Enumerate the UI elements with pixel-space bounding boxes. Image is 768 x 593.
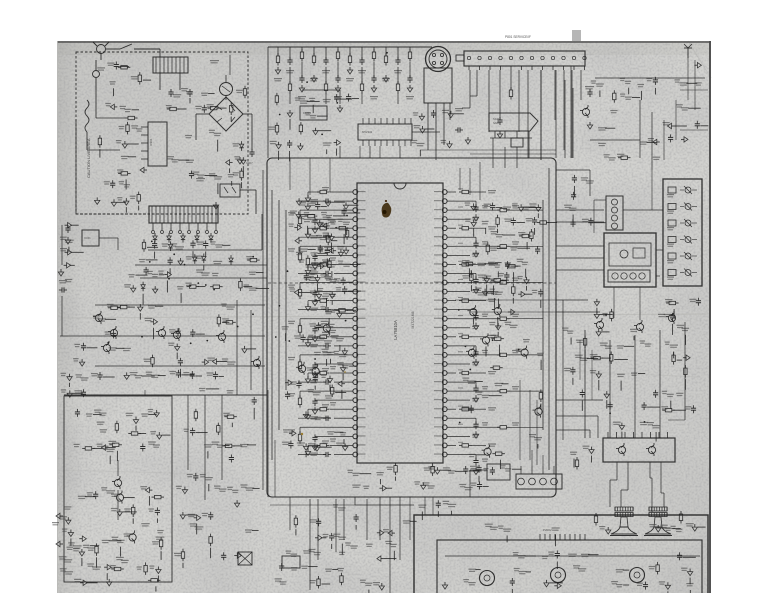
value label [325,309,333,310]
wire [208,484,210,491]
wire [456,435,470,437]
resistor R291 [341,573,343,576]
wire [307,100,320,102]
value label [88,547,95,548]
wire [340,98,352,100]
wire [148,413,156,415]
value label [494,264,500,265]
wire [298,236,326,238]
resistor R207 [301,47,303,52]
value label [61,373,66,374]
resistor R302 [346,227,348,230]
bridge rectifier D901 [209,97,243,131]
transistor Q25 [468,349,475,356]
resistor R213 [373,47,375,52]
resistor R305 [537,222,540,224]
value label [110,565,116,566]
wire [580,70,582,100]
wire [501,383,508,385]
value label [625,81,631,82]
ground [79,359,84,366]
degauss coil L901 [85,100,89,132]
value label [327,431,334,432]
ground [67,374,72,381]
ground [303,443,308,450]
wire [492,138,494,158]
wire [267,47,269,158]
value label [310,115,316,116]
capacitor C294 [319,245,321,248]
value label [512,205,519,206]
value label [498,526,503,527]
value label [94,410,101,411]
value label [467,381,476,382]
capacitor C201 [191,171,193,174]
posistor TH901 [220,83,233,96]
wire [120,547,122,557]
wire [116,347,125,349]
value label [171,159,178,160]
value label [495,292,503,293]
value label [297,442,305,443]
capacitor C312 [82,389,84,392]
value label [529,203,536,204]
wire [153,328,155,340]
value label [309,280,318,281]
value label [131,125,138,126]
svg-text:M52343: M52343 [362,130,373,134]
ground [496,323,501,330]
wire [540,404,542,410]
value label [512,241,519,242]
wire [332,309,338,311]
wire [125,207,127,213]
regulator IC901 [148,122,167,166]
value label [510,247,517,248]
diode D912 [182,233,184,236]
value label [288,224,293,225]
ground [312,335,317,342]
capacitor C212 [336,94,338,97]
value label [156,537,165,538]
value label [513,552,519,553]
ground [226,160,233,165]
tuner coil T201 [511,138,523,147]
resistor R270 [239,278,241,281]
wire [176,353,178,360]
value label [322,223,329,224]
wire [502,279,509,281]
transistor Q105 [218,333,225,340]
value label [640,422,648,423]
value label [338,261,343,262]
value label [337,568,344,569]
wire [395,477,397,481]
value label [309,203,317,204]
value label [173,94,181,95]
wire [169,268,171,274]
value label [311,219,317,220]
wire [420,149,556,151]
value label [477,263,486,264]
ground [122,141,127,148]
value label [245,487,254,488]
ground [289,431,296,436]
wire [581,401,583,411]
wire [596,308,598,313]
ground [442,582,447,589]
value label [215,244,223,245]
resistor R218 [276,93,278,96]
value label [617,345,624,346]
wire [587,358,598,360]
ground [518,204,523,211]
value label [337,362,344,363]
wire [109,447,116,449]
value label [187,474,193,475]
value label [323,233,329,234]
ground [311,75,316,82]
resistor R290 [295,515,297,518]
wire [236,300,238,395]
wire [556,209,604,211]
capacitor C271 [281,563,283,566]
ground [305,203,310,210]
value label [512,278,519,279]
ground [298,143,303,150]
capacitor C283 [672,313,674,316]
ground [343,247,348,254]
value label [645,343,652,344]
value label [309,274,315,275]
value label [52,522,59,523]
capacitor C253 [205,241,207,244]
capacitor C204 [325,47,327,60]
ground [305,231,310,238]
wire [60,335,265,337]
resistor R310 [217,423,219,426]
value label [646,78,652,79]
ground [312,262,317,269]
value label [328,264,336,265]
capacitor C296 [305,273,307,276]
wire [600,313,613,315]
wire [156,518,158,523]
ground [435,467,440,474]
SMPS transformer T901 [149,206,218,223]
keypad box [663,179,702,286]
value label [548,552,554,553]
value label [162,243,169,244]
value label [482,241,488,242]
wire [224,445,230,447]
value label [583,446,590,447]
stain [344,371,346,373]
resistor R242 [497,209,500,211]
value label [210,60,219,61]
wire [527,70,529,158]
value label [73,545,81,546]
ground [482,289,487,296]
caution live area dashed bottom extension [76,213,148,215]
value label [305,112,311,113]
value label [663,122,670,123]
value label [484,204,492,205]
value label [665,342,670,343]
value label [647,422,654,423]
wire [473,229,475,237]
value label [67,547,74,548]
resistor R219 [300,122,302,125]
wire [143,79,151,81]
value label [185,135,192,136]
resistor R233 [299,395,301,398]
wire [289,119,291,130]
value label [676,104,683,105]
value label [518,276,523,277]
capacitor C256 [177,370,179,373]
connector P301 [516,474,562,489]
svg-text:SAWF: SAWF [493,122,500,125]
value label [209,173,215,174]
wire [686,82,697,84]
wire [253,408,255,420]
value label [325,569,332,570]
ground [124,372,129,379]
ground [313,128,318,135]
value label [575,355,583,356]
value label [490,248,498,249]
ground [484,276,489,283]
value label [288,285,295,286]
value label [338,537,346,538]
capacitor C246 [537,246,539,249]
transistor Q801 [582,108,589,115]
value label [472,253,479,254]
resistor R236 [330,444,344,446]
value label [288,393,295,394]
wire [548,222,557,224]
wire [456,318,500,320]
transistor Q101 [95,314,102,321]
value label [476,288,482,289]
value label [326,324,335,325]
value label [363,486,369,487]
capacitor C305 [192,428,194,431]
ground [64,263,71,268]
value label [116,140,122,141]
ground [312,299,317,306]
resistor R260 [491,279,494,281]
wire [511,265,521,267]
wire [309,277,316,279]
capacitor C259 [215,371,217,374]
value label [60,248,67,249]
resistor R253 [459,408,462,410]
resistor R216 [409,47,411,52]
wire [319,130,332,132]
transistor Q103 [158,329,165,336]
value label [330,330,336,331]
transistor Q104 [173,331,180,338]
resistor R306 [530,229,532,232]
ground [683,355,690,360]
wire [456,309,476,311]
value label [500,465,506,466]
value label [169,371,176,372]
resistor R252 [497,390,500,392]
wire [488,70,490,132]
wire [117,460,119,476]
value label [186,256,192,257]
AV jack pins [432,53,435,56]
wire [440,469,451,471]
value label [534,437,542,438]
value label [117,169,123,170]
value label [124,284,131,285]
wire [155,305,163,307]
value label [125,109,131,110]
resistor R282 [96,543,98,546]
main section boundary [267,158,556,497]
capacitor C226 [314,362,316,365]
transistor Q26 [470,309,477,316]
value label [109,347,117,348]
wire [495,262,501,264]
value label [291,554,298,555]
capacitor C220 [314,253,316,256]
value label [310,235,318,236]
ground [668,123,675,128]
wire [342,374,344,381]
value label [65,571,73,572]
value label [414,481,420,482]
capacitor C244 [475,421,477,424]
wire [308,300,320,302]
ground [329,248,336,253]
wire [332,569,338,571]
value label [310,78,318,79]
wire [623,569,630,571]
wire [148,496,150,506]
resistor R278 [109,444,112,446]
value label [330,366,336,367]
value label [190,523,197,524]
value label [148,508,154,509]
value label [331,335,339,336]
wire [302,89,340,91]
wire [95,90,97,118]
value label [519,571,527,572]
ground [305,448,310,455]
transistor Q107 [103,344,110,351]
value label [318,248,323,249]
value label [311,262,318,263]
resistor R296 [684,365,686,368]
value label [482,459,488,460]
wire [206,388,219,390]
capacitor C292 [679,552,681,555]
delay line DL201 [300,106,327,120]
wire [456,254,470,256]
ground [68,530,73,537]
value label [385,541,392,542]
wire [673,309,675,319]
resistor R221 [613,90,615,93]
capacitor C285 [655,390,657,393]
wire [476,569,481,571]
value label [569,208,576,209]
value label [342,365,349,366]
capacitor C238 [475,204,477,207]
value label [295,97,301,98]
ground [65,237,70,244]
wire [314,386,316,390]
value label [147,271,153,272]
value label [504,219,512,220]
value label [581,177,588,178]
wire [672,528,680,530]
value label [376,472,383,473]
wire [624,345,634,347]
wire [594,222,606,224]
ground [241,157,246,164]
ground [156,567,161,574]
value label [310,267,317,268]
P301 pin [518,478,525,485]
wire [670,401,672,409]
value label [482,314,488,315]
resistor R288 [182,549,184,552]
resistor R266 [491,338,494,340]
ground [234,500,239,507]
IC U301 right pins 31-60 [434,188,463,457]
value label [472,434,479,435]
wire [247,444,256,446]
value label [488,262,494,263]
ground [66,517,71,524]
wire [349,204,358,206]
resistor R299 [662,409,665,411]
value label [104,181,110,182]
value label [649,524,656,525]
ground [379,583,384,590]
transistor Q23 [535,408,542,415]
value label [299,259,305,260]
wire [556,221,604,223]
capacitor C250 [154,241,156,244]
P301 pin [529,478,536,485]
wire [308,444,320,446]
ground [79,536,86,541]
value label [310,380,318,381]
capacitor C282 [572,367,574,370]
value label [148,305,156,306]
connector P601 [606,196,623,230]
resistor R287 [210,534,212,537]
capacitor C286 [693,405,695,408]
value label [108,441,116,442]
value label [346,78,354,79]
value label [131,76,139,77]
value label [199,388,206,389]
capacitor C269 [223,552,225,555]
value label [196,269,204,270]
value label [298,96,306,97]
ground [329,234,334,241]
wire [509,318,543,320]
value label [290,211,297,212]
